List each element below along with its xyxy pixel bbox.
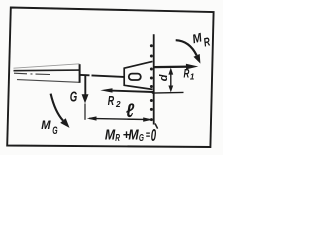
beam faint upper outline [14,64,80,68]
eye hole slot [129,74,141,80]
wall line [153,34,155,124]
dimension d arrow [170,70,172,90]
svg-text:1: 1 [190,72,195,81]
moment M_G arc arrow [51,94,63,121]
svg-text:M: M [41,120,51,132]
svg-text:R: R [108,94,114,108]
moment M_R arc arrow [176,40,197,55]
svg-text:M: M [105,126,116,142]
svg-text:d: d [158,74,170,81]
wall hatch dots [150,44,153,121]
reaction R_1 arrow [154,65,190,68]
frame border [7,8,213,148]
svg-text:ℓ: ℓ [126,99,135,121]
R_2 line of action extension right of wall [152,91,184,94]
wall foot tick [155,124,158,129]
reaction R_2 arrow [107,90,153,92]
tapered beam right end edge [79,64,81,83]
tapered beam bottom edge [17,80,80,83]
svg-text:G: G [52,124,57,136]
force G arrow [84,76,86,96]
svg-text:G: G [139,131,144,143]
svg-text:R: R [115,131,120,143]
eye bracket trapezoid [124,61,152,89]
svg-text:0: 0 [151,125,156,145]
svg-text:M: M [128,126,139,142]
svg-text:=: = [146,129,151,141]
tapered beam top edge [14,69,80,72]
dimension L line [89,118,150,119]
G line of action extension [84,104,86,120]
axis dash-dot line under beam tip [14,73,50,74]
equation M_R + M_G = 0 [105,125,156,145]
svg-text:2: 2 [115,100,121,109]
svg-text:G: G [70,88,78,105]
link rod from beam to eye bracket [81,75,130,77]
